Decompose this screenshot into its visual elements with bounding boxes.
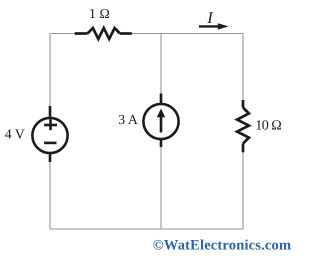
wire right lower segment [242, 150, 244, 229]
voltage source V1 [32, 106, 67, 162]
wire left upper segment [49, 34, 51, 115]
svg-text:4 V: 4 V [5, 126, 25, 141]
wire bottom segment [50, 228, 243, 230]
wire top-middle segment (R1 to node B) [131, 33, 162, 35]
resistor R2 (10 ohm, vertical) [237, 100, 249, 152]
svg-text:3 A: 3 A [118, 112, 138, 127]
wire middle lower segment [160, 142, 162, 229]
current source I1 [143, 94, 178, 148]
wire top-left segment (node A to R1) [50, 33, 76, 35]
svg-text:10 Ω: 10 Ω [255, 119, 281, 134]
wire left lower segment [49, 157, 51, 229]
current source I1 arrowhead [157, 109, 165, 118]
current arrow I (top right) [199, 23, 229, 29]
svg-text:©WatElectronics.com: ©WatElectronics.com [153, 238, 291, 254]
svg-text:1 Ω: 1 Ω [89, 6, 110, 21]
resistor R1 (1 ohm, horizontal) [75, 28, 132, 39]
wire top-right segment (node B to node C) [161, 33, 243, 35]
wire middle upper segment [160, 34, 162, 102]
wire right upper segment [242, 34, 244, 103]
